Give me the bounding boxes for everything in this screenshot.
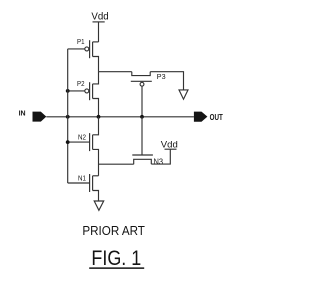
svg-text:PRIOR ART: PRIOR ART: [82, 224, 145, 238]
wire input rail: [46, 116, 194, 118]
svg-text:P1: P1: [77, 37, 85, 46]
IN input arrow: [33, 112, 47, 122]
transistor N1: [68, 174, 99, 202]
wire gate bus: [67, 49, 69, 183]
svg-text:Vdd: Vdd: [91, 11, 108, 23]
svg-text:FIG. 1: FIG. 1: [91, 247, 141, 270]
junction rail / output column: [97, 115, 101, 119]
wire P3 source to ground arrow: [150, 72, 183, 90]
power Vdd (right, N3 source): [161, 139, 178, 150]
node A wire (P1 drain / P2 source to P3): [99, 71, 132, 73]
wire N2 source to N3 drain branch: [99, 163, 134, 165]
transistor P2: [68, 72, 99, 117]
svg-text:N1: N1: [78, 174, 86, 183]
svg-text:P2: P2: [77, 79, 85, 88]
transistor N3: [132, 117, 170, 167]
junction N2 gate: [66, 140, 70, 144]
ground (bottom, open arrow): [94, 201, 104, 210]
svg-text:IN: IN: [19, 109, 26, 118]
ground (right, open arrow): [179, 90, 188, 99]
junction rail / P3-N3 gates: [140, 115, 144, 119]
power Vdd (top): [91, 11, 108, 23]
svg-text:P3: P3: [157, 72, 166, 81]
transistor P3: [131, 72, 166, 117]
junction P2 gate: [66, 89, 70, 93]
svg-text:OUT: OUT: [210, 113, 223, 122]
transistor P1: [68, 37, 99, 71]
OUT output arrow: [194, 112, 208, 122]
wire Vdd to P1 source: [98, 22, 100, 42]
transistor N2: [68, 117, 99, 176]
junction rail / gate bus: [66, 115, 70, 119]
svg-text:N3: N3: [154, 157, 164, 167]
caption underline: [89, 267, 144, 269]
svg-text:N2: N2: [78, 133, 86, 142]
